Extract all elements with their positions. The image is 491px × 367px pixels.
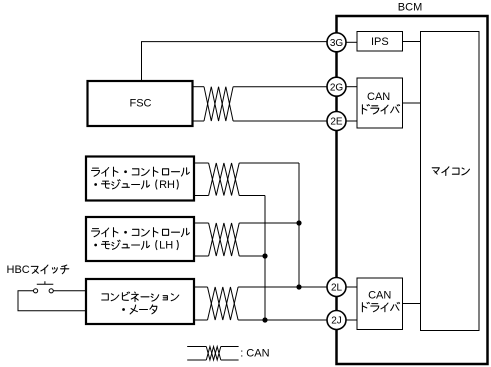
connector 2G: [327, 77, 346, 96]
svg-text:2J: 2J: [331, 316, 342, 327]
meta label line2: [123, 305, 157, 314]
light control module (RH) box: [86, 157, 194, 201]
wire CAN high bus vertical: [298, 163, 300, 287]
junction dot meter low: [262, 317, 267, 322]
doraiba label (bottom driver): [362, 302, 399, 311]
wire RH module CAN high with twisted pair: [194, 162, 208, 164]
svg-text:RH: RH: [159, 179, 175, 191]
raito kontororu label (LH) line1: [92, 228, 190, 237]
wire CAN driver top to microcomputer: [403, 102, 421, 104]
light control module (LH) box: [86, 217, 194, 261]
wire FSC to 2E (CAN low) with twisted pair: [193, 120, 205, 122]
wire 2G to CAN driver top: [346, 86, 357, 88]
wire IPS to microcomputer: [403, 41, 421, 43]
wire FSC top to 3G: [142, 42, 328, 81]
CAN driver box (top): [357, 78, 403, 128]
doraiba label (top driver): [362, 105, 399, 114]
svg-text:BCM: BCM: [398, 1, 422, 13]
mojuru LH label line2: [95, 239, 178, 251]
junction dot LH high: [296, 220, 301, 225]
junction dot LH low: [262, 253, 267, 258]
svg-text:2L: 2L: [331, 283, 343, 294]
svg-text:: CAN: : CAN: [240, 347, 269, 359]
wire combination meter to 2J (CAN low) with twisted pair: [194, 319, 208, 321]
CAN driver box (bottom): [357, 278, 403, 330]
connector 2E: [327, 112, 346, 131]
BCM module box: [337, 16, 488, 364]
wire 2J to CAN driver bottom: [346, 319, 357, 321]
wire LH module CAN low with twisted pair: [194, 255, 208, 257]
FSC box: [88, 81, 193, 126]
wire CAN low bus vertical: [264, 196, 266, 321]
svg-text:LH: LH: [159, 239, 173, 251]
wire 3G to IPS: [346, 41, 357, 43]
svg-text:2G: 2G: [330, 82, 344, 93]
connector 2J: [327, 311, 346, 330]
svg-text:2E: 2E: [330, 117, 343, 128]
junction dot meter high: [296, 284, 301, 289]
connector 2L: [327, 278, 346, 297]
mojuru RH label line2: [95, 179, 178, 191]
microcomputer box (maikon): [421, 32, 480, 331]
maikon label: [432, 167, 469, 176]
svg-text:CAN: CAN: [367, 91, 390, 103]
svg-text:3G: 3G: [330, 38, 344, 49]
wire switch to meter upper: [53, 290, 86, 292]
wire 2E to CAN driver top: [346, 120, 357, 122]
wire switch to meter lower loop: [18, 291, 86, 311]
legend twisted pair symbol: [187, 347, 238, 361]
wire LH module CAN high with twisted pair: [194, 222, 208, 224]
svg-text:CAN: CAN: [368, 290, 391, 302]
konbineshon label line1: [102, 292, 179, 302]
wire FSC to 2G (CAN high) with twisted pair: [193, 86, 205, 88]
svg-text:FSC: FSC: [130, 98, 152, 110]
combination meter box: [86, 279, 194, 324]
wire CAN driver bottom to microcomputer: [403, 303, 421, 305]
wire 2L to CAN driver bottom: [346, 286, 357, 288]
svg-text:IPS: IPS: [371, 36, 389, 48]
connector 3G: [327, 33, 346, 52]
raito kontororu label (RH) line1: [92, 167, 190, 176]
svg-text:HBC: HBC: [7, 264, 30, 276]
IPS box: [357, 32, 403, 52]
HBC switch symbol: [34, 281, 54, 293]
HBC switch kana: [31, 265, 69, 274]
wire RH module CAN low with twisted pair: [194, 195, 208, 197]
wire combination meter to 2L (CAN high) with twisted pair: [194, 286, 208, 288]
